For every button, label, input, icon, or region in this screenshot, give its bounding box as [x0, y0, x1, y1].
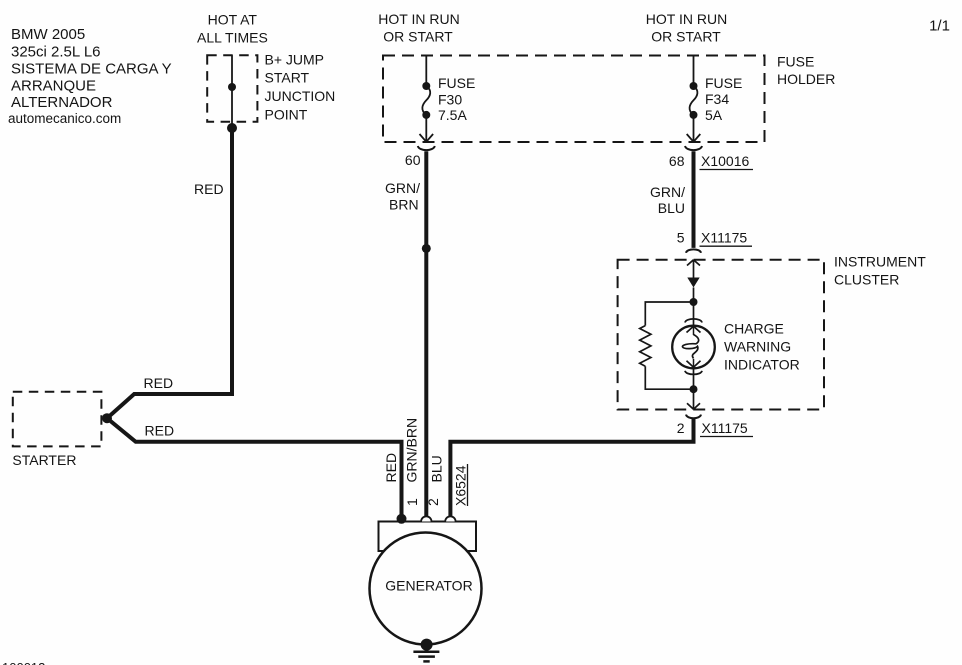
svg-text:CLUSTER: CLUSTER: [834, 272, 899, 288]
connector cup at F34 output: [685, 146, 702, 150]
label FUSE HOLDER: [777, 54, 835, 88]
svg-text:ALTERNADOR: ALTERNADOR: [11, 94, 113, 111]
svg-text:FUSE: FUSE: [438, 75, 475, 91]
svg-text:F30: F30: [438, 92, 462, 108]
arrow out of cluster: [687, 403, 700, 409]
svg-text:X6524: X6524: [453, 465, 469, 506]
ground: [413, 652, 439, 662]
generator body: [370, 533, 482, 645]
svg-text:F34: F34: [705, 91, 729, 107]
wire to lamp: [693, 302, 695, 326]
svg-text:60: 60: [405, 152, 421, 168]
title block: [8, 26, 172, 126]
arrow out of fuse box (F30): [420, 134, 434, 142]
fuse holder box: [383, 56, 765, 143]
svg-text:RED: RED: [145, 423, 175, 439]
wire RED vertical + upper horizontal to starter junction: [107, 128, 232, 418]
svg-text:1/1: 1/1: [929, 18, 950, 35]
label GRN/BRN (upper): [385, 180, 420, 212]
wire BLU run to generator: [450, 419, 693, 517]
svg-text:OR START: OR START: [383, 29, 453, 45]
svg-text:BMW 2005: BMW 2005: [11, 26, 85, 43]
junction dot RED at generator: [397, 514, 407, 524]
fuse F30: [422, 82, 430, 90]
svg-text:100012: 100012: [2, 660, 45, 665]
resistor R (cluster): [640, 326, 651, 367]
svg-text:ALL TIMES: ALL TIMES: [197, 30, 268, 46]
wire B+ feed (thin, inside box): [231, 55, 233, 128]
svg-text:HOT IN RUN: HOT IN RUN: [378, 11, 459, 27]
svg-text:ARRANQUE: ARRANQUE: [11, 78, 96, 95]
svg-text:INDICATOR: INDICATOR: [724, 357, 800, 373]
svg-text:FUSE: FUSE: [705, 75, 742, 91]
connector cup below cluster: [686, 415, 701, 419]
svg-text:HOLDER: HOLDER: [777, 71, 835, 87]
label B+ JUMP START JUNCTION POINT: [265, 51, 336, 122]
svg-text:BLU: BLU: [429, 455, 445, 482]
svg-text:GRN/: GRN/: [650, 184, 685, 200]
svg-text:2: 2: [677, 420, 685, 436]
wire RED lower run to generator: [107, 418, 402, 517]
label FUSE F30 7.5A: [438, 75, 475, 123]
svg-text:5: 5: [677, 230, 685, 246]
generator terminal box: [379, 522, 477, 552]
junction dot (top of lamp branch): [690, 298, 698, 306]
connector cap above lamp: [685, 319, 702, 323]
svg-text:GENERATOR: GENERATOR: [385, 578, 472, 594]
svg-text:2: 2: [425, 498, 441, 506]
svg-text:START: START: [265, 70, 310, 86]
svg-text:GRN/: GRN/: [385, 180, 420, 196]
svg-text:X11175: X11175: [702, 420, 748, 436]
instrument cluster box: [618, 260, 824, 410]
svg-text:automecanico.com: automecanico.com: [8, 111, 121, 126]
svg-text:STARTER: STARTER: [12, 452, 76, 468]
junction dot on GRN/BRN: [422, 244, 431, 253]
svg-text:OR START: OR START: [651, 29, 721, 45]
svg-text:HOT AT: HOT AT: [208, 12, 258, 28]
label GRN/BLU: [650, 184, 685, 216]
junction dot at starter: [102, 413, 112, 423]
terminal arc pin 2: [445, 516, 455, 521]
diode arrowhead: [687, 278, 699, 288]
svg-text:B+ JUMP: B+ JUMP: [265, 51, 325, 67]
wire GRN/BRN: [424, 151, 428, 517]
connector cup at F30 output: [418, 146, 435, 150]
svg-text:RED: RED: [383, 453, 399, 483]
svg-text:5A: 5A: [705, 107, 723, 123]
connector cup below lamp: [685, 371, 702, 375]
svg-text:BRN: BRN: [389, 196, 419, 212]
B+ jump start junction point box: [207, 55, 257, 122]
wire to cluster exit: [693, 389, 695, 409]
label HOT IN RUN OR START (left): [378, 11, 459, 45]
junction dot mid B+ box: [228, 83, 236, 91]
label CHARGE WARNING INDICATOR: [724, 321, 800, 373]
svg-text:HOT IN RUN: HOT IN RUN: [646, 11, 727, 27]
resistor branch wires: [645, 302, 693, 326]
svg-text:SISTEMA DE CARGA Y: SISTEMA DE CARGA Y: [11, 61, 172, 78]
label HOT AT ALL TIMES: [197, 12, 268, 46]
fuse F34: [690, 82, 698, 90]
svg-text:INSTRUMENT: INSTRUMENT: [834, 254, 926, 270]
wire lamp to bottom junction: [693, 368, 695, 389]
fuse F30 feed wire: [425, 56, 427, 87]
svg-text:BLU: BLU: [658, 200, 685, 216]
wire GRN/BLU: [692, 151, 696, 248]
svg-text:RED: RED: [194, 181, 224, 197]
ground dot: [421, 639, 433, 651]
lamp filament: [682, 335, 698, 359]
svg-text:RED: RED: [144, 375, 174, 391]
fuse F34 feed wire: [693, 56, 695, 87]
svg-text:7.5A: 7.5A: [438, 107, 467, 123]
svg-text:68: 68: [669, 153, 685, 169]
svg-text:325ci 2.5L L6: 325ci 2.5L L6: [11, 44, 101, 61]
starter box: [13, 392, 102, 447]
svg-text:X11175: X11175: [701, 230, 747, 246]
connector cap at cluster input: [686, 249, 701, 252]
arrow into cluster: [687, 260, 700, 266]
label HOT IN RUN OR START (right): [646, 11, 727, 45]
svg-text:CHARGE: CHARGE: [724, 321, 784, 337]
terminal arc pin 1: [421, 516, 431, 521]
svg-text:JUNCTION: JUNCTION: [265, 88, 336, 104]
label INSTRUMENT CLUSTER: [834, 254, 926, 288]
svg-text:1: 1: [404, 498, 420, 506]
svg-text:FUSE: FUSE: [777, 54, 814, 70]
charge warning indicator lamp: [672, 326, 715, 369]
svg-text:X10016: X10016: [701, 153, 749, 169]
label FUSE F34 5A: [705, 75, 742, 123]
svg-text:GRN/BRN: GRN/BRN: [404, 418, 420, 483]
svg-text:WARNING: WARNING: [724, 339, 791, 355]
svg-text:POINT: POINT: [265, 107, 308, 123]
arrow out of fuse box (F34): [687, 134, 701, 142]
junction dot at B+ box bottom: [227, 123, 237, 133]
junction dot (bottom of lamp branch): [690, 385, 698, 393]
